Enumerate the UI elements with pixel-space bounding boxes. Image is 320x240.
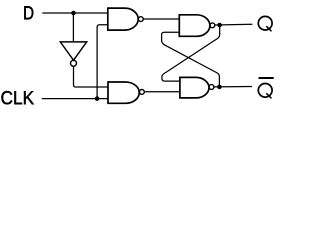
wire U2 output to U4 lower input — [144, 91, 180, 93]
node B output Qbar junction — [217, 85, 222, 90]
node CLK junction — [95, 96, 100, 101]
label CLK — [1, 91, 12, 104]
node D junction — [71, 11, 76, 16]
inverter U5 triangle — [60, 42, 86, 60]
inverter U5 output bubble — [71, 60, 77, 66]
wire D to inverter — [72, 13, 74, 41]
wire D input — [42, 12, 108, 14]
nand gate U4 — [180, 77, 209, 98]
label CLK letter K — [24, 91, 34, 104]
wire cross W1 node A to U4 upper input — [162, 25, 220, 81]
label Qbar tail — [266, 93, 271, 98]
wire U3 output to Q — [215, 23, 253, 26]
label Q — [258, 16, 272, 30]
nand U3 output bubble — [210, 23, 215, 28]
node A output Q junction — [217, 23, 222, 28]
label Q tail — [266, 26, 271, 31]
nand U4 output bubble — [209, 85, 214, 90]
wire CLK branch to U1 lower input — [97, 25, 108, 99]
wire U1 output to U3 upper input — [143, 18, 180, 20]
nand gate U1 — [108, 8, 138, 30]
label CLK letter L — [14, 91, 22, 104]
wire cross W2 node B to U3 lower input — [162, 32, 220, 87]
nand gate U3 — [179, 15, 210, 37]
label Qbar overline — [259, 77, 274, 79]
nand gate U2 — [108, 82, 139, 103]
wire U4 output to Qbar — [214, 86, 252, 88]
wire inverter output to U2 upper input — [74, 66, 109, 87]
label D — [24, 6, 33, 19]
nand U2 output bubble — [140, 90, 145, 95]
nand U1 output bubble — [138, 17, 143, 22]
label Qbar — [258, 84, 272, 98]
wire CLK input — [42, 98, 108, 100]
